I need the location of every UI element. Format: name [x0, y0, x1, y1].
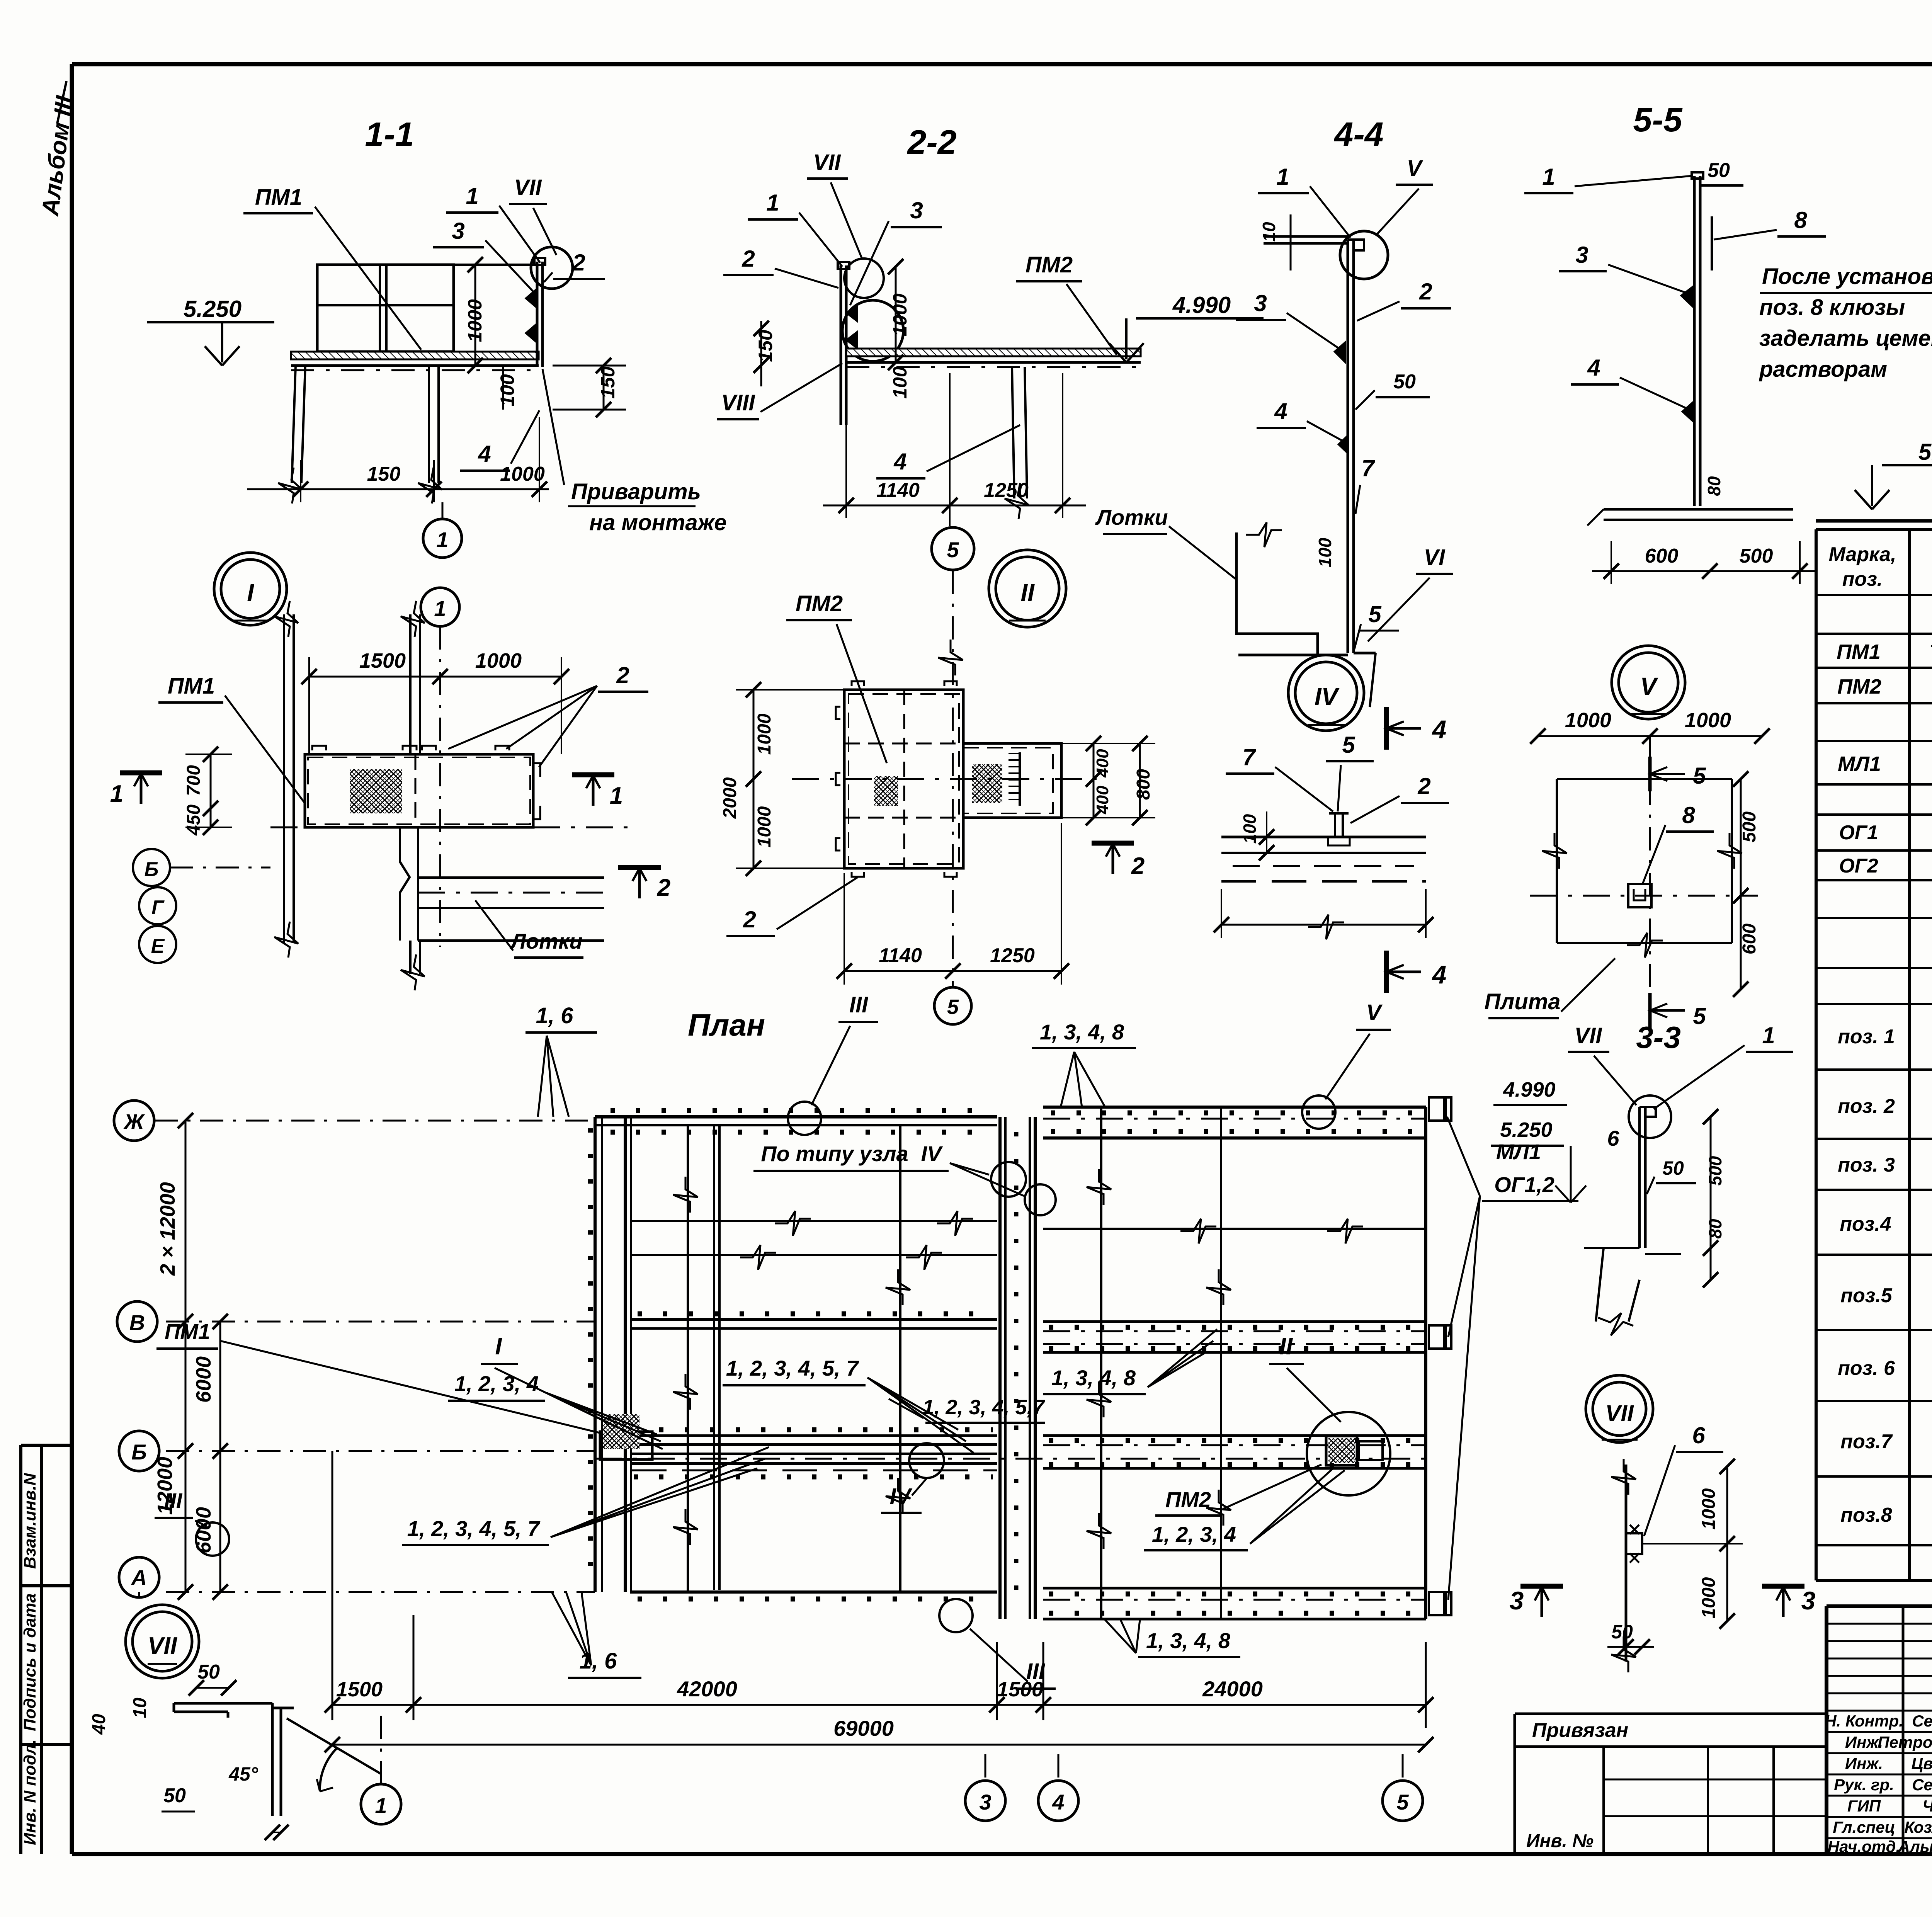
- axis A line: [166, 1591, 595, 1593]
- svg-text:50: 50: [1611, 1621, 1633, 1643]
- privyazan strip: [1515, 1713, 1827, 1715]
- svg-text:45°: 45°: [228, 1763, 259, 1785]
- svg-text:ПМ1: ПМ1: [1837, 640, 1881, 663]
- svg-text:1000: 1000: [1565, 709, 1611, 732]
- svg-text:3: 3: [1575, 242, 1588, 268]
- svg-text:Рук. гр.: Рук. гр.: [1834, 1776, 1894, 1794]
- detail VII x marks: [1630, 1525, 1639, 1534]
- uzel II axis line: [792, 778, 1105, 780]
- uzel I axis line B: [270, 827, 638, 828]
- svg-text:Взам.инв.N: Взам.инв.N: [20, 1473, 39, 1569]
- svg-text:5: 5: [1693, 763, 1706, 789]
- svg-text:ПМ1: ПМ1: [255, 185, 302, 210]
- svg-text:4: 4: [1052, 1790, 1064, 1814]
- svg-text:5: 5: [947, 995, 959, 1019]
- section 5-5 elevation 5.830: [1882, 464, 1932, 466]
- svg-text:1000: 1000: [754, 806, 775, 847]
- svg-text:3-3: 3-3: [1636, 1020, 1681, 1055]
- svg-text:Альтшуллер: Альтшуллер: [1898, 1837, 1932, 1856]
- section 4-4 floor step: [1236, 532, 1318, 655]
- svg-text:7: 7: [1361, 455, 1375, 481]
- detail V axis horiz: [1530, 895, 1758, 897]
- axis V line: [166, 1321, 595, 1323]
- svg-text:2000: 2000: [720, 777, 740, 819]
- svg-text:4: 4: [1432, 960, 1447, 989]
- title block outer: [1827, 1604, 1932, 1608]
- svg-text:ПМ2: ПМ2: [1165, 1487, 1211, 1512]
- left tank inner wall line: [713, 1125, 715, 1590]
- svg-text:5-5: 5-5: [1633, 100, 1682, 139]
- svg-text:поз.5: поз.5: [1840, 1284, 1893, 1307]
- svg-text:2: 2: [1417, 773, 1430, 799]
- svg-text:2: 2: [616, 662, 629, 688]
- plan bottom dimension row1: [332, 1704, 1426, 1706]
- svg-text:1000: 1000: [889, 293, 911, 336]
- svg-text:ОГ2: ОГ2: [1839, 855, 1878, 877]
- uzel II bottom dims: [844, 970, 1061, 972]
- svg-text:ПМ2: ПМ2: [1837, 675, 1881, 698]
- svg-text:III: III: [164, 1488, 183, 1513]
- detail V slab outline: [1557, 778, 1732, 780]
- svg-text:50: 50: [1708, 159, 1730, 182]
- svg-text:ПМ1: ПМ1: [165, 1319, 210, 1344]
- svg-text:Е: Е: [151, 935, 165, 958]
- svg-text:V: V: [1407, 156, 1423, 181]
- uzel I corner clips: [312, 746, 326, 750]
- svg-text:1: 1: [610, 782, 623, 809]
- detail IV section flag 4 bottom: [1384, 951, 1389, 993]
- svg-text:VII: VII: [813, 150, 842, 175]
- detail IV bolt: [1334, 813, 1336, 837]
- svg-text:4: 4: [478, 441, 491, 467]
- plan bottom column circles: [361, 1784, 401, 1824]
- svg-text:VIII: VIII: [721, 390, 755, 415]
- right block band A: [1043, 1587, 1426, 1590]
- svg-text:2: 2: [1419, 279, 1432, 304]
- axis circle Zh: [114, 1101, 154, 1141]
- axis circle B: [119, 1431, 159, 1471]
- section 5-5 bottom dims: [1592, 570, 1816, 572]
- svg-text:поз. 6: поз. 6: [1838, 1357, 1895, 1379]
- section 1-1 detail circle VII: [531, 247, 573, 289]
- svg-text:II: II: [1020, 579, 1035, 607]
- detail VII bracket: [1626, 1533, 1642, 1554]
- svg-text:поз.: поз.: [1842, 568, 1883, 590]
- detail V pos8 box: [1628, 884, 1651, 907]
- uzel II column-5 axis: [932, 527, 974, 570]
- svg-text:Лотки: Лотки: [509, 929, 582, 953]
- uzel II dims right: [1093, 743, 1095, 818]
- svg-text:1: 1: [1276, 164, 1289, 190]
- svg-text:450: 450: [184, 805, 204, 836]
- uzel I column-1 circle: [421, 588, 459, 626]
- section 4-4 top slab line: [1264, 242, 1349, 245]
- svg-text:400: 400: [1093, 786, 1112, 815]
- svg-text:8: 8: [1794, 207, 1807, 233]
- svg-text:VI: VI: [1424, 545, 1446, 570]
- right block east wall with ladders: [1424, 1107, 1427, 1619]
- svg-text:5.250: 5.250: [1500, 1118, 1552, 1141]
- svg-text:1: 1: [766, 190, 779, 216]
- svg-text:Чирков: Чирков: [1922, 1797, 1932, 1815]
- svg-text:24000: 24000: [1202, 1677, 1263, 1701]
- svg-text:1, 2, 3, 4, 5, 7: 1, 2, 3, 4, 5, 7: [726, 1356, 859, 1380]
- svg-text:3: 3: [1801, 1586, 1816, 1615]
- svg-text:II: II: [1279, 1333, 1293, 1360]
- svg-text:100: 100: [889, 366, 911, 399]
- svg-text:1, 2, 3, 4: 1, 2, 3, 4: [454, 1371, 539, 1396]
- svg-text:6: 6: [1692, 1422, 1705, 1448]
- left tank mid break walls: [630, 1220, 997, 1222]
- right block band B: [1043, 1434, 1426, 1437]
- svg-text:4.990: 4.990: [1172, 292, 1231, 318]
- svg-text:Марка,: Марка,: [1829, 543, 1896, 566]
- svg-text:800: 800: [1133, 769, 1154, 800]
- svg-text:ПМ2: ПМ2: [796, 591, 843, 616]
- plan label III lower-left circle: [196, 1522, 229, 1556]
- svg-text:6000: 6000: [192, 1507, 215, 1553]
- svg-text:1140: 1140: [876, 479, 920, 502]
- svg-text:40: 40: [89, 1714, 109, 1735]
- svg-text:ОГ1,2: ОГ1,2: [1494, 1172, 1554, 1197]
- plan label III bottom circle: [939, 1599, 973, 1632]
- detail IV section flag 4 top: [1384, 707, 1389, 750]
- plan label III top circle: [788, 1102, 821, 1135]
- svg-text:600: 600: [1739, 924, 1760, 954]
- axis B line: [166, 1450, 595, 1452]
- detail V top dims: [1538, 735, 1762, 737]
- svg-text:План: План: [688, 1008, 765, 1042]
- svg-text:1: 1: [1762, 1022, 1775, 1048]
- svg-text:1000: 1000: [475, 649, 522, 672]
- svg-text:I: I: [495, 1333, 502, 1360]
- svg-text:1000: 1000: [1699, 1488, 1719, 1529]
- axis B continuation dashdot: [595, 1458, 1426, 1460]
- svg-text:поз.7: поз.7: [1840, 1431, 1893, 1453]
- svg-text:Козловичер: Козловичер: [1904, 1818, 1932, 1836]
- section 2-2 elevation 4.990: [1136, 317, 1264, 320]
- svg-text:100: 100: [497, 374, 518, 407]
- svg-text:5: 5: [947, 538, 959, 562]
- svg-text:поз. 3: поз. 3: [1838, 1154, 1895, 1176]
- svg-text:1, 3, 4, 8: 1, 3, 4, 8: [1146, 1628, 1231, 1653]
- svg-text:ПМ2: ПМ2: [1026, 252, 1073, 277]
- svg-text:150: 150: [597, 366, 619, 399]
- svg-text:5.250: 5.250: [184, 296, 241, 322]
- svg-text:1000: 1000: [1699, 1577, 1719, 1618]
- uzel I top dims: [309, 676, 561, 678]
- svg-text:Инв. N подл.: Инв. N подл.: [20, 1739, 39, 1845]
- section 3-3 detail circle: [1629, 1095, 1671, 1138]
- uzel II section flag 2: [1092, 841, 1134, 846]
- left tank west wall: [594, 1117, 597, 1592]
- svg-text:Подпись и дата: Подпись и дата: [20, 1593, 39, 1731]
- svg-text:IV: IV: [890, 1484, 913, 1509]
- svg-text:500: 500: [1740, 545, 1773, 567]
- section 2-2 bottom dims: [823, 505, 1086, 507]
- plan label IV circle mid: [909, 1443, 944, 1478]
- section 1-1 railing post: [536, 262, 539, 367]
- svg-text:150: 150: [367, 463, 401, 485]
- svg-text:2: 2: [742, 246, 755, 272]
- uzel II detail circle: [989, 550, 1066, 627]
- section 1-1 elevation 5.250: [147, 321, 274, 323]
- svg-text:2-2: 2-2: [906, 123, 956, 161]
- svg-text:1500: 1500: [997, 1678, 1043, 1701]
- plan bottom dimension row2: [332, 1744, 1426, 1746]
- section 1-1 deck: [291, 352, 539, 359]
- drawing frame border: [72, 62, 1932, 66]
- left tank wall A: [630, 1590, 997, 1594]
- svg-text:1: 1: [1542, 164, 1555, 190]
- svg-text:Н. Контр.: Н. Контр.: [1825, 1712, 1903, 1730]
- svg-text:1250: 1250: [990, 944, 1035, 967]
- svg-text:50: 50: [197, 1661, 220, 1683]
- svg-text:1, 3, 4, 8: 1, 3, 4, 8: [1051, 1366, 1136, 1390]
- svg-text:500: 500: [1705, 1156, 1725, 1186]
- svg-text:1: 1: [375, 1793, 387, 1818]
- svg-text:10: 10: [130, 1698, 150, 1718]
- svg-text:ОГ1: ОГ1: [1839, 822, 1878, 844]
- svg-text:4: 4: [1274, 398, 1287, 424]
- svg-text:100: 100: [1240, 814, 1260, 844]
- svg-text:1: 1: [466, 183, 478, 209]
- uzel I section flag 1 left: [120, 771, 162, 776]
- left tank top wall Zh: [595, 1115, 997, 1119]
- PM1 platform on plan: [600, 1432, 652, 1459]
- plan section marks 3 right: [1520, 1584, 1563, 1589]
- svg-text:1, 2, 3, 4: 1, 2, 3, 4: [1152, 1522, 1236, 1546]
- svg-text:1-1: 1-1: [365, 115, 414, 153]
- svg-text:4.990: 4.990: [1503, 1078, 1555, 1101]
- svg-text:поз. 8 клюзы: поз. 8 клюзы: [1759, 295, 1905, 320]
- section 1-1 bottom dims: [247, 488, 549, 490]
- left margin stamp strip: [19, 1445, 22, 1854]
- svg-text:ТП902-2-428.87-КЖ.И . 8.1.00: ТП902-2-428.87-КЖ.И . 8.1.00: [1929, 641, 1932, 662]
- section 2-2 wall post: [840, 265, 842, 425]
- section 2-2 detail circles: [844, 259, 884, 298]
- svg-text:В: В: [129, 1310, 145, 1335]
- detail IV slab: [1221, 836, 1426, 839]
- svg-text:3: 3: [452, 218, 464, 244]
- svg-text:IV: IV: [921, 1141, 944, 1166]
- section 1-1 tank wall: [317, 265, 454, 352]
- svg-text:100: 100: [1315, 538, 1335, 567]
- svg-text:МЛ1: МЛ1: [1838, 752, 1881, 776]
- svg-text:1500: 1500: [359, 649, 406, 672]
- svg-text:Гл.спец: Гл.спец: [1833, 1818, 1895, 1836]
- svg-text:на монтаже: на монтаже: [589, 510, 727, 535]
- uzel I section flag 1 right: [572, 772, 614, 777]
- detail VII dim 50: [1607, 1646, 1654, 1648]
- svg-text:1, 6: 1, 6: [536, 1003, 573, 1028]
- detail V dims right: [1740, 779, 1742, 896]
- left tank wall V: [630, 1318, 997, 1321]
- svg-text:80: 80: [1705, 1219, 1725, 1239]
- detail VII wall line: [1625, 1465, 1628, 1662]
- section 4-4 detail circle top: [1340, 231, 1388, 279]
- right block mid break lines: [1043, 1228, 1426, 1230]
- right block band V: [1043, 1320, 1426, 1323]
- section 2-2 deck support: [1012, 367, 1014, 498]
- detail IV circle: [1288, 655, 1364, 731]
- svg-text:V: V: [1366, 1000, 1383, 1025]
- svg-text:1000: 1000: [500, 463, 545, 485]
- svg-text:10: 10: [1259, 222, 1279, 242]
- section 3-3 post: [1638, 1107, 1641, 1248]
- detail VII circle bottom: [1586, 1375, 1653, 1442]
- detail V circle: [1612, 646, 1685, 719]
- svg-text:поз. 1: поз. 1: [1838, 1026, 1895, 1048]
- svg-text:3: 3: [1254, 290, 1267, 316]
- uzel I platform: [305, 754, 533, 827]
- svg-text:заделать цементным: заделать цементным: [1759, 326, 1932, 351]
- svg-text:50: 50: [163, 1784, 186, 1807]
- section 5-5 floor: [1604, 508, 1793, 511]
- detail V flag 5 bottom: [1648, 993, 1652, 1028]
- svg-text:700: 700: [184, 765, 204, 796]
- svg-text:1140: 1140: [879, 944, 922, 967]
- VII detail circle bottom-left: [126, 1605, 199, 1678]
- uzel I detail circle: [214, 553, 287, 625]
- svg-text:600: 600: [1645, 545, 1679, 567]
- svg-text:Петропавловская: Петропавловская: [1878, 1733, 1932, 1751]
- section 1-1 deck supports: [292, 366, 296, 483]
- uzel II corner clips: [852, 681, 864, 686]
- svg-text:1: 1: [110, 781, 123, 807]
- svg-text:VII: VII: [514, 175, 543, 200]
- uzel II platform right arm: [963, 743, 1061, 818]
- detail IV bottom dim: [1221, 924, 1426, 926]
- svg-text:ГИП: ГИП: [1847, 1797, 1881, 1815]
- svg-text:1000: 1000: [754, 713, 775, 755]
- svg-text:400: 400: [1093, 749, 1112, 778]
- svg-text:3: 3: [979, 1790, 991, 1814]
- svg-text:2 × 12000: 2 × 12000: [156, 1182, 179, 1276]
- svg-text:Нач.отд.: Нач.отд.: [1828, 1837, 1900, 1856]
- svg-text:6000: 6000: [192, 1356, 215, 1403]
- 45 degree channel detail: [174, 1702, 272, 1705]
- svg-text:III: III: [849, 992, 869, 1017]
- svg-text:1000: 1000: [1685, 709, 1731, 732]
- svg-text:80: 80: [1704, 476, 1724, 496]
- right block top band: [1043, 1106, 1426, 1109]
- svg-text:5: 5: [1368, 601, 1382, 627]
- PM2 platform on plan: [1326, 1436, 1357, 1465]
- svg-text:Привязан: Привязан: [1532, 1719, 1628, 1742]
- svg-text:растворам: растворам: [1759, 357, 1887, 382]
- svg-text:4: 4: [1432, 715, 1447, 743]
- uzel I axis circles B G E: [133, 849, 170, 886]
- svg-text:Лотки: Лотки: [1095, 505, 1168, 529]
- svg-text:2: 2: [743, 907, 756, 932]
- uzel II ladder comb: [1019, 752, 1021, 806]
- right block columns: [1100, 1107, 1102, 1619]
- svg-text:После установки: После установки: [1762, 264, 1932, 289]
- svg-text:По типу узла: По типу узла: [761, 1141, 908, 1166]
- left tank columns: [687, 1125, 689, 1592]
- svg-text:Приварить: Приварить: [571, 479, 701, 504]
- svg-text:Ж: Ж: [123, 1109, 145, 1134]
- svg-text:5.830: 5.830: [1918, 439, 1932, 465]
- svg-text:Семенова: Семенова: [1912, 1712, 1932, 1730]
- svg-text:1, 3, 4, 8: 1, 3, 4, 8: [1040, 1020, 1124, 1044]
- svg-text:поз.8: поз.8: [1840, 1504, 1892, 1526]
- svg-text:1: 1: [434, 596, 446, 621]
- svg-text:Г: Г: [151, 896, 165, 919]
- svg-text:150: 150: [755, 330, 776, 362]
- svg-text:8: 8: [1682, 802, 1695, 828]
- svg-text:2: 2: [657, 874, 670, 901]
- svg-text:50: 50: [1393, 371, 1416, 393]
- axis Zh line: [155, 1120, 595, 1122]
- svg-text:поз. 2: поз. 2: [1838, 1095, 1895, 1118]
- section 4-4 post: [1347, 240, 1349, 653]
- svg-text:Цветкова: Цветкова: [1912, 1754, 1932, 1772]
- middle dividing wall: [998, 1117, 1002, 1619]
- svg-text:1500: 1500: [336, 1678, 383, 1701]
- column circle 1 below section 1-1: [423, 519, 462, 558]
- svg-text:Семенова: Семенова: [1912, 1776, 1932, 1794]
- section 2-2 deck: [846, 349, 1141, 356]
- svg-text:69000: 69000: [833, 1716, 894, 1740]
- axis circle V: [117, 1301, 157, 1342]
- svg-text:VII: VII: [148, 1633, 178, 1659]
- section 5-5 pos8 sleeve: [1711, 216, 1713, 270]
- svg-text:IV: IV: [1315, 683, 1340, 711]
- title block signature columns: [1902, 1606, 1905, 1854]
- svg-text:V: V: [1640, 672, 1659, 700]
- svg-text:ПМ1: ПМ1: [168, 674, 215, 699]
- svg-text:1250: 1250: [984, 479, 1029, 502]
- svg-text:3: 3: [910, 197, 923, 223]
- svg-text:42000: 42000: [677, 1677, 737, 1701]
- svg-text:1, 2, 3, 4, 5, 7: 1, 2, 3, 4, 5, 7: [407, 1516, 541, 1541]
- section 5-5 post: [1693, 176, 1696, 506]
- left vertical dimension lines: [185, 1121, 187, 1592]
- section 3-3 floor: [1584, 1247, 1639, 1249]
- svg-text:VII: VII: [1575, 1023, 1603, 1048]
- uzel I dims left: [210, 754, 212, 827]
- svg-text:4-4: 4-4: [1333, 115, 1383, 153]
- svg-text:1, 2, 3, 4, 5,7: 1, 2, 3, 4, 5,7: [922, 1396, 1045, 1419]
- uzel I section flag 2: [618, 865, 661, 870]
- uzel I left wall lines: [283, 614, 285, 943]
- svg-text:Инж.: Инж.: [1845, 1754, 1883, 1772]
- axis circle A: [119, 1557, 159, 1597]
- uzel II platform main square: [844, 690, 963, 868]
- svg-text:3: 3: [1510, 1586, 1524, 1615]
- svg-text:4: 4: [1587, 355, 1600, 381]
- svg-text:500: 500: [1739, 811, 1760, 842]
- svg-text:поз.4: поз.4: [1840, 1213, 1891, 1235]
- svg-text:МЛ1: МЛ1: [1496, 1140, 1541, 1164]
- svg-text:4: 4: [893, 449, 906, 475]
- plan label V top right circle: [1302, 1095, 1335, 1129]
- svg-text:Инв. №: Инв. №: [1526, 1831, 1594, 1851]
- section 2-2 weld marks: [847, 305, 857, 321]
- svg-text:I: I: [247, 579, 254, 607]
- svg-text:1: 1: [436, 527, 448, 552]
- svg-text:5: 5: [1396, 1790, 1409, 1814]
- spec table grid: [1816, 519, 1932, 523]
- svg-text:Б: Б: [131, 1440, 147, 1464]
- svg-text:5: 5: [1693, 1003, 1706, 1029]
- svg-text:7: 7: [1242, 744, 1256, 770]
- left tank wall B band: [632, 1434, 997, 1437]
- uzel I lotki channel: [417, 827, 419, 941]
- svg-text:5: 5: [1342, 732, 1355, 758]
